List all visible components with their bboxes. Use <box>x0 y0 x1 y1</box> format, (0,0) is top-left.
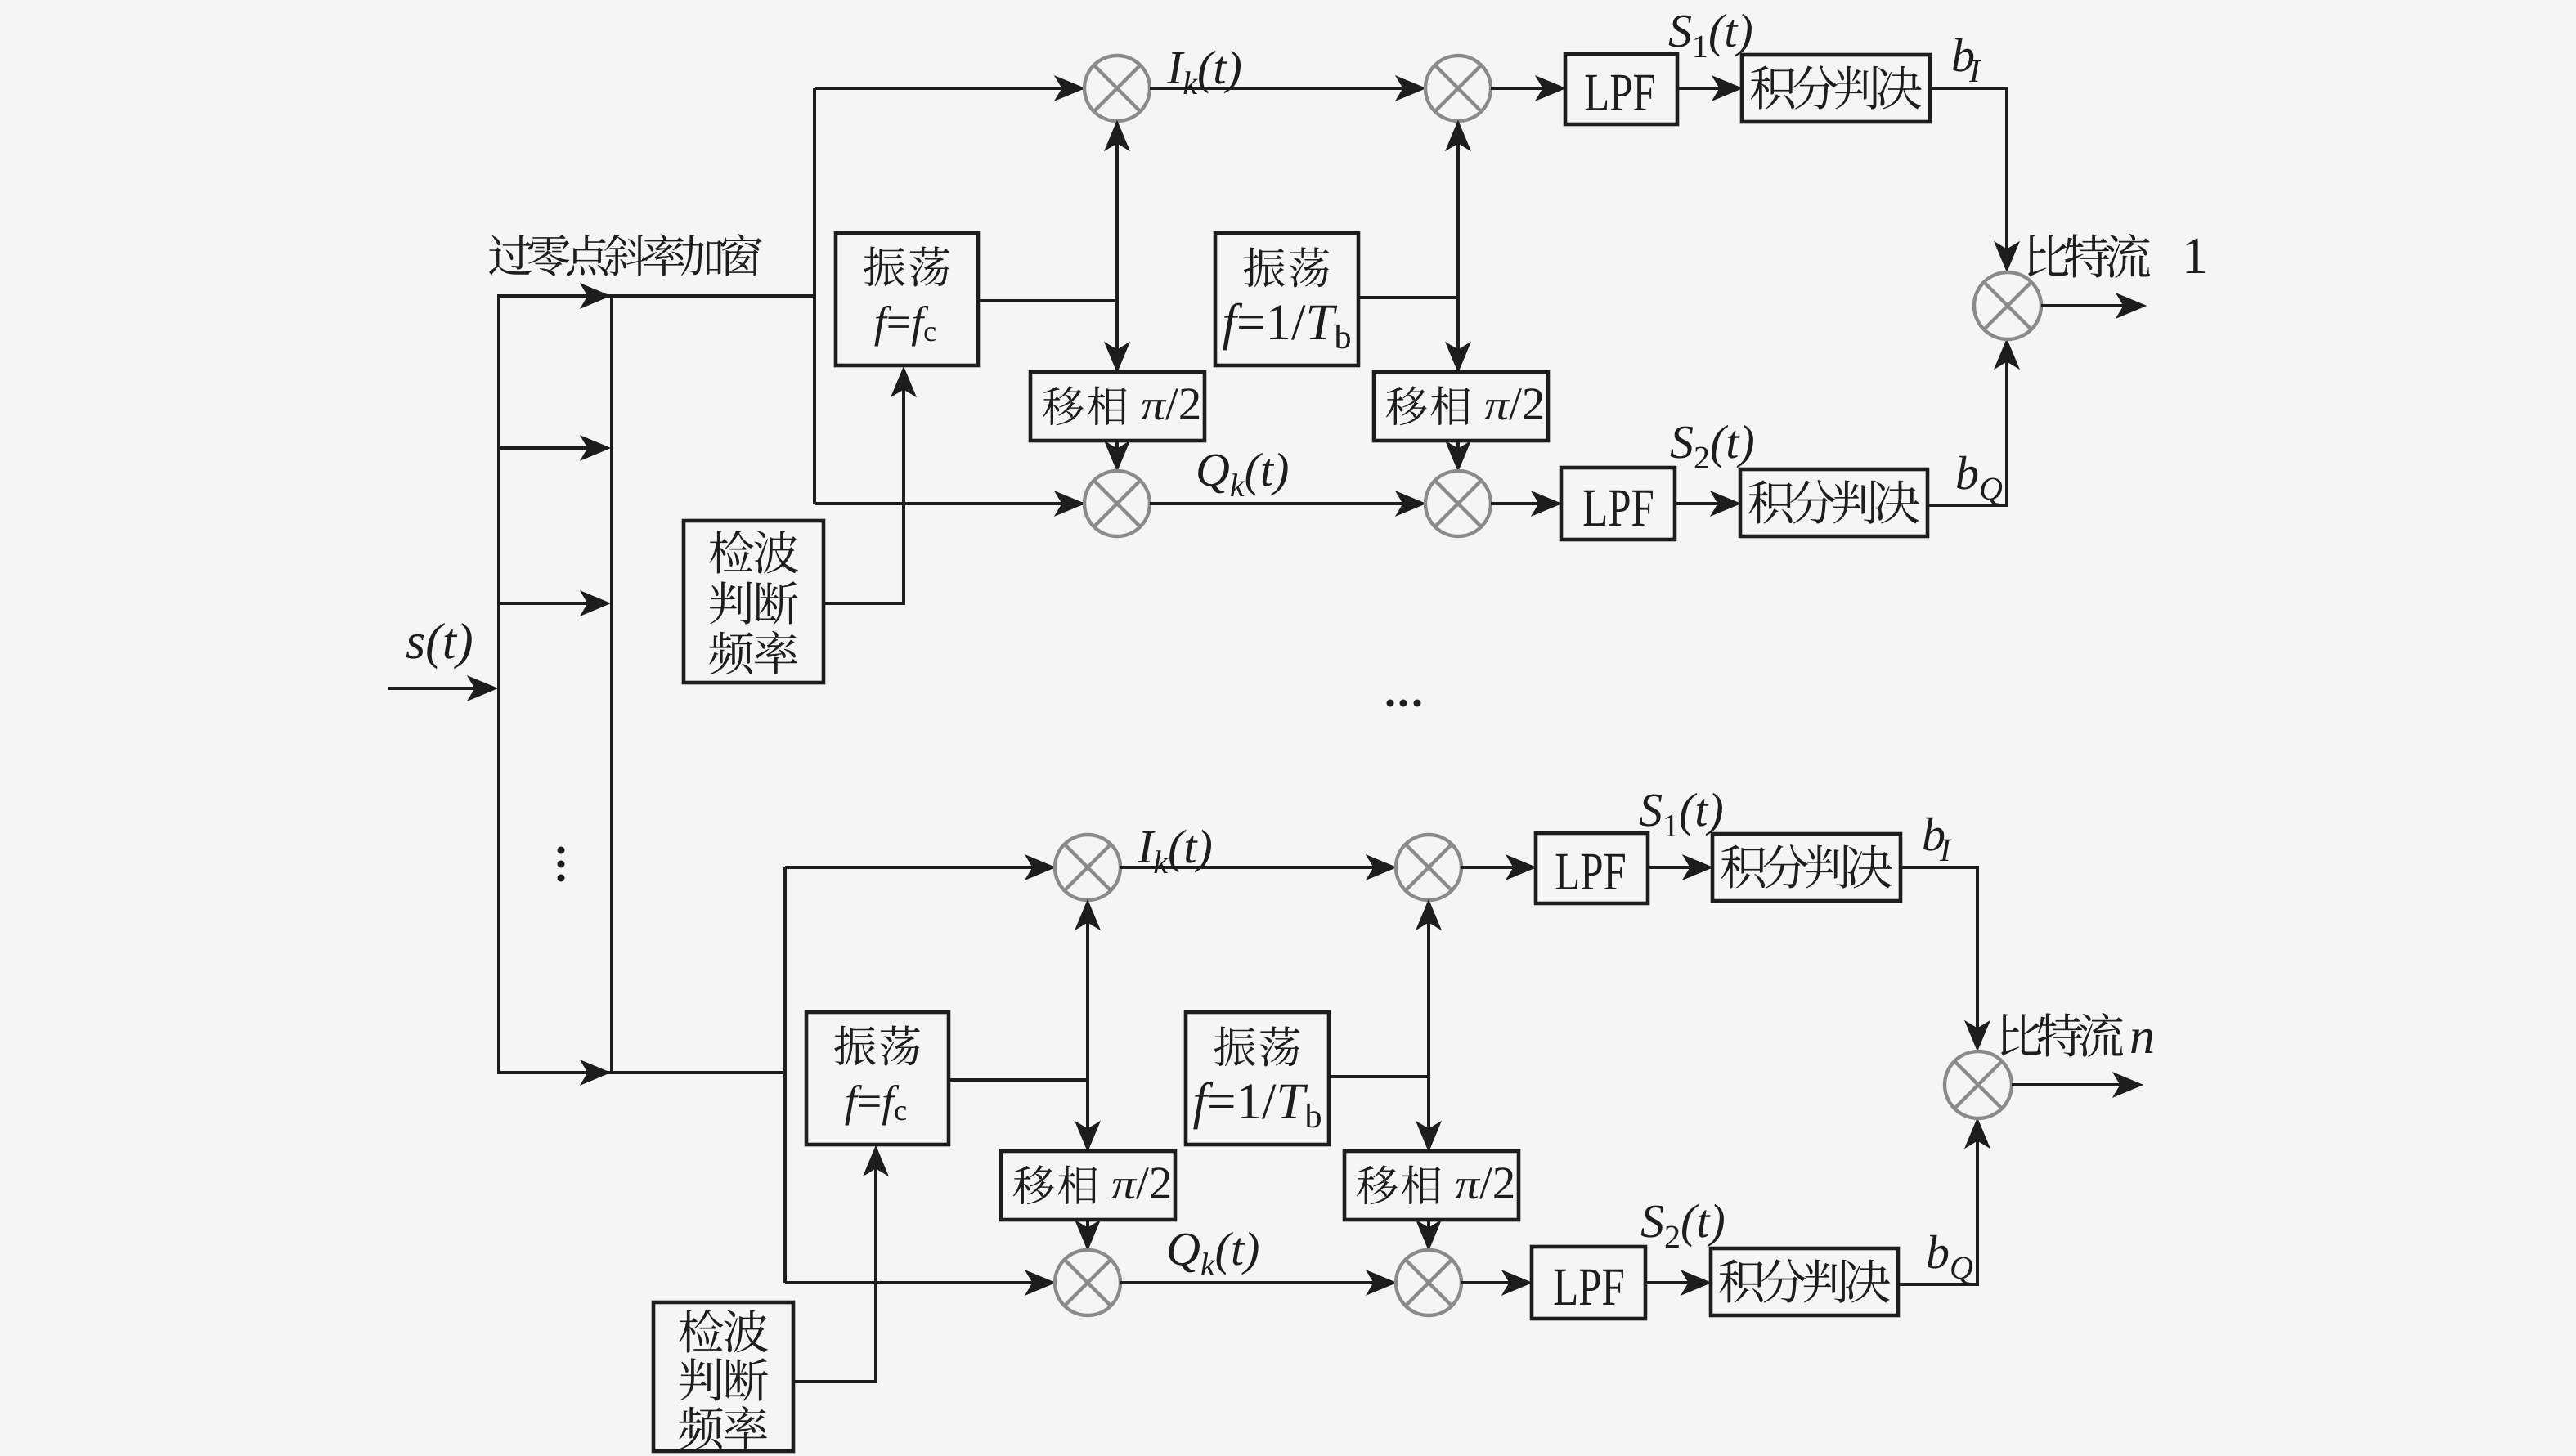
block 检波判断频率 branch-1 (detect and decide frequency) <box>684 521 824 683</box>
wire branch-n Q-row into multiplier 1 <box>785 1281 1053 1284</box>
wire branch-n LPF-Q to integrator <box>1645 1281 1706 1284</box>
vertical ellipsis on bus <box>558 847 565 882</box>
label 振荡 (fc) branch-1 <box>864 246 949 286</box>
wire branch-n LPF-I to integrator <box>1648 866 1708 869</box>
label f=f_c branch-1 <box>874 306 936 347</box>
wire branch-n Q-row mult1 to mult2 <box>1120 1281 1393 1284</box>
label π #2 branch-1 <box>1484 400 1510 419</box>
wire branch-1 b_I to output multiplier <box>1930 88 2007 268</box>
multiplier branch-n Q-1 <box>1055 1250 1120 1315</box>
multiplier branch-1 I-1 (carrier mixer) <box>1084 56 1150 121</box>
label 频率 branch-1 <box>709 631 797 674</box>
label b_Q branch-n <box>1928 1235 1972 1284</box>
block 积分判决 I branch-1 (integrate and decide) <box>1742 55 1930 122</box>
label S_1(t) branch-1 <box>1669 14 1752 57</box>
wire branch-n b_Q to output multiplier <box>1898 1122 1977 1284</box>
block 振荡 f=fc branch-1 (carrier oscillator) <box>836 233 978 365</box>
label 振荡 (fc) branch-n <box>834 1025 920 1065</box>
label 移相 #2 branch-n <box>1357 1165 1440 1204</box>
label LPF I branch-n <box>1556 854 1625 889</box>
label f=f_c branch-n <box>845 1085 906 1126</box>
label 判断 branch-1 <box>710 581 798 624</box>
label /2 #1 branch-n <box>1136 1167 1169 1198</box>
label bitstream index 1 <box>2187 239 2206 273</box>
label 积分判决 Q branch-1 <box>1748 480 1919 524</box>
label 移相 #2 branch-1 <box>1386 386 1470 425</box>
wire branch-1 1/Tb oscillator output tee <box>1358 296 1458 299</box>
wire s(t) input arrow <box>388 687 484 690</box>
label LPF I branch-1 <box>1586 75 1654 110</box>
label 移相 #1 branch-n <box>1013 1165 1097 1204</box>
label π #1 branch-1 <box>1141 400 1166 419</box>
label 振荡 (1/Tb) branch-n <box>1214 1026 1300 1066</box>
label 积分判决 Q branch-n <box>1719 1259 1890 1303</box>
label Q_k(t) branch-n <box>1169 1232 1258 1275</box>
wire branch-1 I-row into multiplier 1 <box>815 87 1083 90</box>
label /2 #2 branch-n <box>1479 1167 1513 1198</box>
wire branch-n phase shifter 2 to Q-2 multiplier <box>1427 1220 1430 1247</box>
multiplier branch-n Q-2 <box>1396 1250 1461 1315</box>
wire bus line 2 (splitter right rail) <box>610 296 613 1073</box>
label 移相 #1 branch-1 <box>1043 386 1126 425</box>
wire branch-n I-row mult1 to mult2 <box>1120 866 1393 869</box>
wire branch-n phase shifter 1 to Q-1 multiplier <box>1086 1220 1089 1247</box>
label f=1/T_b branch-1 <box>1223 303 1350 351</box>
block 检波判断频率 branch-n (detect and decide frequency) <box>653 1302 793 1451</box>
wire branch-1 I-row mult2 to LPF <box>1491 87 1562 90</box>
label LPF Q branch-1 <box>1584 491 1653 526</box>
wire branch-1 frequency detector to fc oscillator <box>824 370 904 603</box>
label 过零点斜率加窗 (zero-crossing slope windowing) <box>489 234 762 276</box>
label 频率 branch-n <box>679 1406 767 1449</box>
wire branch-1 LPF-I to integrator <box>1677 87 1737 90</box>
wire branch-n output arrow <box>2012 1083 2128 1086</box>
block 移相 π/2 #2 branch-n <box>1344 1151 1519 1220</box>
wire branch-1 I-row mult1 to mult2 <box>1150 87 1422 90</box>
wire branch-n frequency detector to fc oscillator <box>793 1149 876 1382</box>
wire branch-1 1/Tb to I-2 multiplier and phase shifter <box>1456 124 1460 369</box>
label 比特流 1 (bitstream 1) <box>2028 234 2150 278</box>
wire branch-1 b_Q to output multiplier <box>1928 343 2007 505</box>
wire branch-n fc oscillator output tee <box>949 1078 1088 1082</box>
wire branch-1 Q-row mult1 to mult2 <box>1150 502 1422 505</box>
block LPF I branch-n <box>1536 833 1648 903</box>
multiplier branch-1 I-2 (bit-rate mixer) <box>1425 56 1491 121</box>
label 判断 branch-n <box>680 1358 768 1400</box>
block 移相 π/2 #1 branch-n <box>1001 1151 1175 1220</box>
label LPF Q branch-n <box>1555 1270 1623 1305</box>
label 检波 branch-1 <box>709 531 797 574</box>
label Q_k(t) branch-1 <box>1198 453 1287 496</box>
block 移相 π/2 #2 branch-1 <box>1374 372 1548 441</box>
label bitstream index n <box>2131 1029 2152 1053</box>
label π #2 branch-n <box>1455 1179 1480 1198</box>
multiplier branch-n I-2 (bit-rate mixer) <box>1396 835 1461 900</box>
label b_I branch-n <box>1923 818 1952 861</box>
block 积分判决 Q branch-n (integrate and decide) <box>1711 1248 1898 1315</box>
wire branch-n Q-row mult2 to LPF <box>1461 1281 1528 1284</box>
block 移相 π/2 #1 branch-1 <box>1030 372 1205 441</box>
wire branch-n I-row mult2 to LPF <box>1461 866 1533 869</box>
wire bus line 1 (splitter left rail) <box>497 296 500 1073</box>
wire branch-1 Q-row into multiplier 1 <box>815 502 1083 505</box>
block LPF I branch-1 <box>1565 54 1677 124</box>
wire branch-1 phase shifter 2 to Q-2 multiplier <box>1456 441 1460 468</box>
junction arrow into bus line 2 (top tap) <box>581 284 610 308</box>
block 积分判决 I branch-n (integrate and decide) <box>1712 834 1901 901</box>
wire branch-n feed (bus to riser) <box>497 1071 785 1074</box>
label 积分判决 I branch-1 <box>1751 65 1922 110</box>
multiplier branch-1 Q-2 <box>1425 471 1491 536</box>
wire tap 3 arrow <box>497 602 599 605</box>
wire branch-n b_I to output multiplier <box>1901 867 1977 1047</box>
block 振荡 f=fc branch-n (carrier oscillator) <box>806 1012 949 1145</box>
label S_2(t) branch-n <box>1641 1204 1724 1248</box>
wire branch-n 1/Tb oscillator output tee <box>1329 1075 1429 1078</box>
label 积分判决 I branch-n <box>1721 844 1892 889</box>
block 积分判决 Q branch-1 (integrate and decide) <box>1740 469 1928 536</box>
wire tap 2 arrow <box>497 446 599 450</box>
wire branch-n I-row into multiplier 1 <box>785 866 1053 869</box>
multiplier branch-n output combiner <box>1945 1051 2012 1118</box>
label S_1(t) branch-n <box>1640 793 1722 836</box>
label 检波 branch-n <box>679 1310 767 1353</box>
block 振荡 f=1/Tb branch-n (bit-rate oscillator) <box>1186 1012 1329 1145</box>
wire branch-n 1/Tb to I-2 multiplier and phase shifter <box>1427 903 1430 1148</box>
label S_2(t) branch-1 <box>1671 425 1753 468</box>
block LPF Q branch-1 <box>1561 468 1675 540</box>
wire branch-1 riser (feed split to I and Q rows) <box>813 88 816 504</box>
horizontal ellipsis between branches <box>1387 700 1421 707</box>
label I_k(t) branch-n <box>1138 830 1211 873</box>
multiplier branch-1 Q-1 <box>1084 471 1150 536</box>
wire branch-n riser (feed split to I and Q rows) <box>783 867 787 1283</box>
block 振荡 f=1/Tb branch-1 (bit-rate oscillator) <box>1215 233 1358 365</box>
multiplier branch-n I-1 (carrier mixer) <box>1055 835 1120 900</box>
wire branch-1 fc oscillator output tee <box>978 299 1117 302</box>
label π #1 branch-n <box>1111 1179 1137 1198</box>
wire branch-n fc to I-1 multiplier and phase shifter <box>1086 903 1089 1148</box>
label 比特流 n (bitstream n) <box>2001 1013 2123 1057</box>
wire branch-1 fc to I-1 multiplier and phase shifter <box>1115 124 1119 369</box>
wire branch-1 phase shifter 1 to Q-1 multiplier <box>1115 441 1119 468</box>
wire branch-1 LPF-Q to integrator <box>1675 502 1735 505</box>
block LPF Q branch-n <box>1532 1247 1645 1319</box>
multiplier branch-1 output combiner <box>1974 272 2041 339</box>
wire branch-1 output arrow <box>2041 304 2131 307</box>
wire branch-1 Q-row mult2 to LPF <box>1491 502 1558 505</box>
label /2 #2 branch-1 <box>1509 388 1542 419</box>
label I_k(t) branch-1 <box>1167 51 1241 94</box>
label f=1/T_b branch-n <box>1193 1082 1321 1130</box>
node s(t) input label <box>406 623 472 669</box>
junction arrow into bus line 2 (bottom tap) <box>581 1060 610 1085</box>
label /2 #1 branch-1 <box>1165 388 1199 419</box>
label b_I branch-1 <box>1953 38 1981 82</box>
wire branch-1 feed (bus to riser) <box>497 294 815 298</box>
label 振荡 (1/Tb) branch-1 <box>1244 247 1330 287</box>
label b_Q branch-1 <box>1957 456 2002 505</box>
